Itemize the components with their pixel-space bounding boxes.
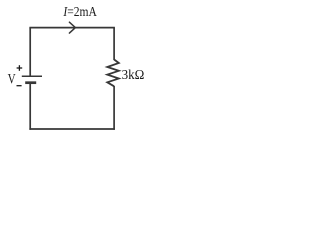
current arrow head on top wire [69, 22, 75, 33]
minus sign [17, 85, 22, 87]
wire left upper (source + lead) [29, 28, 31, 77]
plus sign [17, 65, 23, 71]
wire left lower (source - lead) [29, 83, 31, 130]
svg-text:I=2mA: I=2mA [63, 5, 98, 20]
battery V1 positive plate (long) [22, 75, 42, 77]
svg-text:3kΩ: 3kΩ [122, 68, 145, 83]
svg-text:V: V [8, 72, 16, 88]
wire right lower (resistor bottom lead) [113, 86, 115, 130]
wire bottom (return path) [29, 128, 115, 130]
resistor R1 zigzag [107, 60, 119, 87]
battery V1 negative plate (short thick) [25, 81, 36, 84]
wire top (node from source + to resistor) [29, 27, 115, 29]
wire right upper (resistor top lead) [113, 28, 115, 60]
